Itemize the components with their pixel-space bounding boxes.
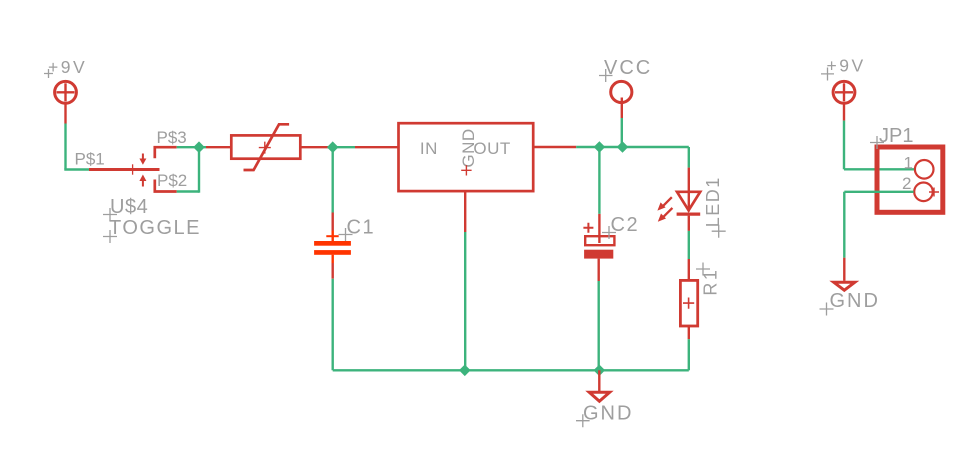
svg-text:GND: GND [583,403,633,425]
junction at C1 top net [327,141,339,153]
svg-text:+9V: +9V [48,57,87,77]
svg-text:2: 2 [902,174,911,193]
wire C1 branch down [332,147,334,230]
svg-text:LED1: LED1 [703,176,723,227]
svg-text:IN: IN [420,139,438,158]
svg-text:OUT: OUT [473,139,510,158]
power symbol +9V (right) [833,81,855,103]
label +9V (right) [821,56,866,81]
label GND (right) [820,290,880,316]
capacitor C1 [314,231,351,264]
regulator OUT wire [533,146,689,148]
capacitor C2 polarity + [583,223,593,233]
junction rail at regulator GND [459,365,471,377]
ground symbol (right) [834,282,855,290]
fuse F1 body [231,124,300,170]
label VCC [599,57,652,82]
label C1 [339,217,376,242]
toggle arrow bottom [139,175,146,187]
label LED1 (rotated) [703,176,726,237]
label JP1 [870,125,913,149]
pin cross GND pin [461,165,471,175]
VCC symbol circle [611,81,632,102]
wire fuse to junction (red then green) [300,146,328,148]
capacitor C2 [584,236,614,258]
junction rail at GND symbol [594,365,606,377]
wire C1 bottom to rail [332,263,334,370]
wire C2 branch down [598,147,600,243]
wire N$1 vertical [64,124,66,170]
label TOGGLE [103,217,201,243]
wire R1 bottom to rail [688,326,690,370]
junction at switch output [193,141,205,153]
label GND (center) [576,403,633,428]
svg-text:GND: GND [830,290,880,312]
wire VCC symbol down [621,98,623,148]
wire rail to GND symbol [598,370,600,391]
svg-text:1: 1 [904,154,913,173]
JP1 pin 1 pad [915,160,934,179]
label +9V (left) [44,57,87,78]
wire junction to regulator IN [333,146,399,148]
svg-text:+9V: +9V [827,56,866,76]
svg-text:P$1: P$1 [75,149,105,168]
label R1 (rotated) [696,263,721,296]
wire junction to fuse (red) [206,146,231,148]
wire red stub from +9V [64,104,66,124]
switch U$4 pin P$1 lever [89,168,160,171]
junction VCC net at VCC symbol [617,141,629,153]
wire JP1 pin2 to GND [844,192,913,281]
JP1 pin 2 pad [914,183,933,202]
wire LED branch down [688,147,690,212]
ground rail wire [333,369,689,371]
svg-text:P$2: P$2 [157,171,187,190]
svg-text:C1: C1 [347,217,376,239]
wire +9V right down [844,104,915,170]
wire switch to junction (green) [177,146,206,148]
resistor R1 [680,280,697,326]
label C2 [602,214,639,239]
power symbol +9V (left) [55,81,77,103]
wire C2 bottom to rail [598,259,600,371]
LED LED1 [657,192,700,222]
switch contact P$2 bracket [155,180,177,192]
svg-text:TOGGLE: TOGGLE [109,217,201,239]
JP1 pin 2 stub cross [929,188,939,197]
regulator GND pin wire down [464,191,466,370]
ground symbol (center) [589,392,610,401]
connector JP1 box [877,147,943,212]
svg-text:P$3: P$3 [157,128,187,147]
regulator U1 box [399,123,534,191]
junction VCC net at C2 [594,141,606,153]
switch contact P$3 bracket [155,147,177,158]
wire P$2 to junction [177,147,199,193]
pin cross P$1 [132,164,134,174]
svg-text:JP1: JP1 [879,125,913,147]
wire LED to R1 [688,216,690,281]
toggle arrow top [139,154,146,165]
wire N$1 horizontal to switch [64,168,89,170]
label U$4 [103,196,148,221]
